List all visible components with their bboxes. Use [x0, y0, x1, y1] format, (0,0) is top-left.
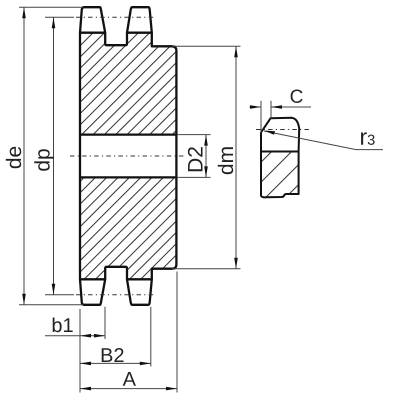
- b1 dimension line: [45, 335, 105, 337]
- de dimension line: [23, 7, 25, 304]
- B2 dimension line: [80, 362, 151, 364]
- r3 leader line: [264, 131, 383, 150]
- cap line bottom right segment: [127, 278, 152, 280]
- label C: [291, 90, 303, 103]
- cap line top left segment: [80, 32, 105, 34]
- dp dimension line: [53, 17, 55, 294]
- de extension top: [19, 6, 83, 8]
- dm extension bottom: [172, 268, 241, 270]
- cap line bottom left segment: [80, 278, 105, 280]
- top tooth gap (white slot): [105, 31, 127, 45]
- D2 extension bottom: [177, 176, 211, 178]
- center line horizontal axis: [70, 155, 184, 157]
- bottom extension line x=150.8: [150, 307, 152, 367]
- label D2: [188, 147, 203, 171]
- bottom extension line x=177: [176, 272, 178, 393]
- D2 dimension line: [205, 135, 207, 178]
- C dimension line left: [250, 106, 262, 108]
- bottom extension line x=80: [79, 309, 81, 393]
- pitch line bottom: [76, 294, 156, 296]
- C dimension line right: [271, 106, 311, 108]
- label b1: [53, 318, 73, 333]
- dm extension top: [172, 45, 241, 47]
- side view hatched block: [261, 152, 299, 197]
- cap line top right segment: [127, 32, 152, 34]
- side view center line: [256, 129, 310, 131]
- label B2: [102, 348, 124, 362]
- pitch line top: [76, 16, 156, 18]
- label r3: [361, 132, 375, 145]
- C extension right: [270, 101, 272, 119]
- C extension left: [260, 101, 262, 133]
- bottom extension line x=105: [104, 307, 106, 339]
- side view profile outline: [261, 118, 299, 198]
- label A: [123, 372, 136, 386]
- dm dimension line: [235, 46, 237, 268]
- hatched body top block: [80, 33, 176, 135]
- label dp: [34, 149, 54, 171]
- bore top line: [80, 133, 176, 135]
- bore bottom line: [80, 176, 176, 178]
- dp extension top: [45, 16, 74, 18]
- D2 extension top: [177, 134, 211, 136]
- A dimension line: [80, 388, 177, 390]
- main outline: sprocket body with two teeth top and bottom, hub right: [80, 7, 176, 305]
- de extension bottom: [19, 304, 83, 306]
- bottom tooth gap (white slot): [105, 267, 127, 281]
- label de: [6, 147, 21, 169]
- label dm: [218, 147, 233, 174]
- hatched body bottom block: [80, 177, 176, 279]
- dp extension bottom: [45, 294, 74, 296]
- side view cap line: [261, 151, 299, 153]
